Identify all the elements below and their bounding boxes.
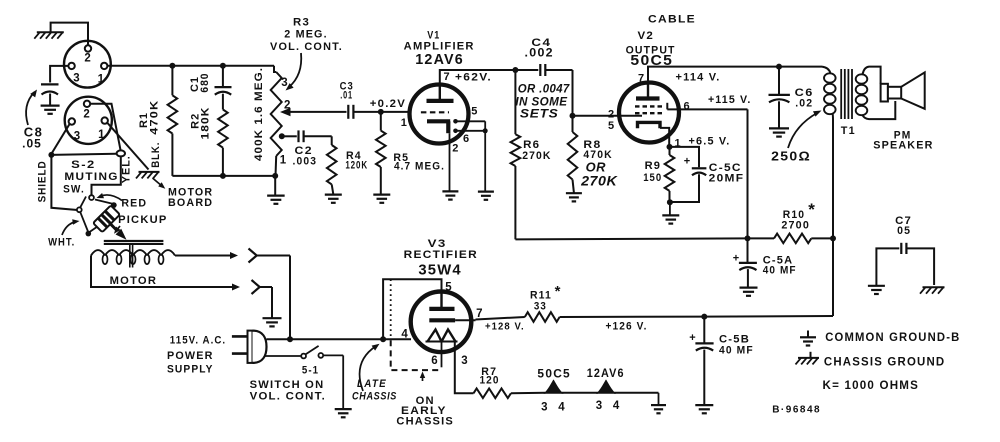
node V3 pin5 tap <box>380 336 386 342</box>
wire V1 plate to C4 <box>440 70 539 85</box>
node C-5B top <box>701 314 707 320</box>
svg-text:PICKUP: PICKUP <box>118 214 167 226</box>
wire V3 pin5 <box>383 279 441 339</box>
svg-text:40 MF: 40 MF <box>763 264 797 276</box>
svg-text:2700: 2700 <box>781 220 810 232</box>
ground (V1 pin 2) <box>442 190 458 192</box>
node R10 right <box>830 235 836 241</box>
connector J2 (pickup socket, pins 1-2-3) <box>65 97 112 144</box>
svg-text:12AV6: 12AV6 <box>587 368 625 380</box>
svg-text:S-2: S-2 <box>71 159 95 171</box>
ground (C-5A) <box>740 287 758 289</box>
capacitor C1 680 <box>222 66 224 87</box>
svg-text:SPEAKER: SPEAKER <box>873 140 933 152</box>
resistor R8 470K <box>572 116 574 132</box>
legend common ground symbol <box>807 331 809 338</box>
svg-text:2: 2 <box>608 108 614 120</box>
potentiometer R3 (400K 1.6 MEG) <box>274 66 276 72</box>
svg-text:40 MF: 40 MF <box>719 344 754 356</box>
chassis ground motor board <box>139 171 160 173</box>
svg-text:+0.2V: +0.2V <box>370 98 406 110</box>
svg-text:400K 1.6 MEG.: 400K 1.6 MEG. <box>253 67 265 161</box>
svg-text:3: 3 <box>541 402 547 414</box>
pot tap node <box>279 133 285 139</box>
node C6 top <box>776 64 782 70</box>
svg-text:1: 1 <box>280 155 287 167</box>
svg-text:3: 3 <box>461 355 467 367</box>
wire S-1 to ground <box>323 354 343 356</box>
stylus arrow <box>110 223 117 230</box>
resistor R6 270K <box>514 70 516 134</box>
svg-text:MUTING: MUTING <box>64 171 118 183</box>
pickup cartridge <box>93 205 120 232</box>
legend chassis ground symbol <box>810 352 812 358</box>
svg-text:SETS: SETS <box>520 106 559 120</box>
svg-text:WHT.: WHT. <box>48 236 75 248</box>
capacitor C4 .002 <box>539 64 541 76</box>
svg-text:K= 1000 OHMS: K= 1000 OHMS <box>823 380 920 392</box>
svg-text:T1: T1 <box>841 125 856 137</box>
switch S-2 blade <box>80 197 86 208</box>
svg-text:SUPPLY: SUPPLY <box>167 364 214 376</box>
resistor R7 120 <box>474 389 511 399</box>
svg-text:270K: 270K <box>522 150 551 162</box>
V2 cathode to pin 1 <box>660 128 669 147</box>
svg-text:CABLE: CABLE <box>648 14 696 26</box>
wire V2 pin6 +115V <box>667 108 747 110</box>
capacitor C6 .02 <box>778 67 780 95</box>
node V2 cathode junction <box>667 144 673 150</box>
svg-text:CHASSIS GROUND: CHASSIS GROUND <box>824 357 946 369</box>
svg-text:SWITCH ON: SWITCH ON <box>250 379 325 391</box>
svg-text:+: + <box>733 253 739 265</box>
V2 screen grids (dashes) <box>635 105 665 107</box>
capacitor C3 .01 <box>347 105 349 119</box>
svg-text:3: 3 <box>74 131 80 143</box>
node WHT (dot) <box>86 231 92 237</box>
wire V2 plate +114V <box>648 67 822 83</box>
wire J1 pin1 to top bus <box>107 65 274 67</box>
svg-text:4: 4 <box>613 400 620 412</box>
ground (C-5B) <box>695 404 713 406</box>
ground (motor line 2) <box>263 317 282 319</box>
svg-text:BOARD: BOARD <box>168 197 213 209</box>
svg-text:3: 3 <box>596 400 602 412</box>
svg-text:5-1: 5-1 <box>302 364 319 376</box>
V3 pin7 wire <box>455 319 475 321</box>
transformer T1 primary <box>822 67 831 74</box>
wire +126 to T1 <box>704 315 833 318</box>
svg-text:.002: .002 <box>525 48 554 60</box>
svg-text:+128 V.: +128 V. <box>485 321 525 333</box>
capacitor C-5A 40MF <box>747 238 749 262</box>
ground (R5) <box>373 194 390 196</box>
wire J2 pin2 to YEL terminal <box>90 104 121 151</box>
wire to V1 grid <box>381 111 410 113</box>
svg-text:1: 1 <box>98 129 105 141</box>
svg-text:470K: 470K <box>583 149 612 161</box>
heater 50C5 (hump) <box>545 381 561 393</box>
svg-text:V2: V2 <box>638 30 655 42</box>
svg-text:12AV6: 12AV6 <box>415 52 464 68</box>
svg-text:COMMON GROUND-B: COMMON GROUND-B <box>825 332 960 344</box>
svg-text:270K: 270K <box>580 173 618 188</box>
svg-text:.003: .003 <box>293 155 318 167</box>
svg-text:+62V.: +62V. <box>455 72 492 84</box>
wire RED contact lead <box>95 200 113 204</box>
V3 pin3 wire <box>455 342 474 394</box>
switch S-1 <box>301 354 306 359</box>
svg-text:RED: RED <box>121 198 147 210</box>
V3 cathode bar <box>429 318 455 322</box>
ground (C7 left, common) <box>868 285 885 287</box>
pot wiper arrow <box>280 108 291 116</box>
ground (R8) <box>566 192 582 194</box>
ground (R4) <box>325 194 342 196</box>
svg-text:POWER: POWER <box>167 350 214 362</box>
V2 screen tap <box>666 103 668 110</box>
ground (C7 right, chassis) <box>923 286 945 288</box>
power plug <box>232 335 249 338</box>
svg-text:+115 V.: +115 V. <box>708 94 752 106</box>
svg-text:R3: R3 <box>293 17 310 29</box>
capacitor C8 .05 <box>41 83 59 85</box>
svg-text:SHIELD: SHIELD <box>37 160 49 202</box>
svg-text:BLK.: BLK. <box>150 142 162 168</box>
svg-text:+: + <box>684 156 690 168</box>
V3 plate <box>440 292 442 307</box>
svg-text:B·96848: B·96848 <box>772 405 821 416</box>
ground (heater) <box>651 404 666 406</box>
switch S-2 lower contact (open circle) <box>77 207 82 212</box>
svg-text:2: 2 <box>84 53 90 65</box>
motor lower wire <box>91 256 233 288</box>
wire shield down <box>51 155 77 210</box>
wire YEL drop to muting contact <box>92 156 121 195</box>
terminal YEL (oval) <box>117 150 125 156</box>
capacitor C7 <box>876 248 899 285</box>
svg-text:120: 120 <box>479 375 499 387</box>
V1 cathode <box>427 119 450 123</box>
svg-text:2 MEG.: 2 MEG. <box>284 28 328 40</box>
svg-text:33: 33 <box>534 300 547 312</box>
svg-text:6: 6 <box>683 101 689 113</box>
svg-text:3: 3 <box>73 73 79 85</box>
svg-text:R6: R6 <box>523 139 540 151</box>
svg-text:CHASSIS: CHASSIS <box>396 415 454 427</box>
svg-text:AMPLIFIER: AMPLIFIER <box>404 41 475 53</box>
svg-text:VOL. CONT.: VOL. CONT. <box>270 41 343 53</box>
node top bus R1 <box>169 63 175 69</box>
svg-text:+6.5 V.: +6.5 V. <box>689 135 731 147</box>
resistor R2 180K <box>218 110 228 148</box>
node +115/R10 junction <box>745 235 751 241</box>
svg-text:180K: 180K <box>200 107 212 140</box>
dotted line (late chassis) <box>390 279 392 339</box>
svg-text:3: 3 <box>281 77 287 89</box>
node R9/C5C bottom <box>667 199 673 205</box>
ground (pot) <box>274 176 276 196</box>
V3 heater <box>428 330 456 342</box>
svg-text:5: 5 <box>471 106 477 118</box>
wire J2 pin3 to shield node <box>52 123 70 153</box>
label MOTOR BOARD <box>153 178 163 187</box>
tube V1 envelope <box>410 85 469 144</box>
svg-text:5: 5 <box>608 120 614 132</box>
node pot bottom <box>272 173 278 179</box>
muting switch contact (open circle) <box>89 195 94 200</box>
capacitor C2 .003 <box>282 135 297 137</box>
svg-text:6: 6 <box>431 355 437 367</box>
wire plug to S-1 <box>264 355 301 357</box>
dashed box (early chassis) <box>391 340 442 370</box>
svg-text:1: 1 <box>401 117 407 129</box>
svg-text:*: * <box>555 283 561 300</box>
svg-text:7: 7 <box>638 72 644 84</box>
svg-text:680: 680 <box>199 73 211 93</box>
node shield junction <box>48 152 54 158</box>
wire contact to WHT lead <box>80 212 88 231</box>
svg-text:+126 V.: +126 V. <box>606 321 648 333</box>
capacitor C-5B 40MF <box>703 317 705 343</box>
PM speaker <box>881 84 888 102</box>
node motor tap <box>287 336 293 342</box>
V2 cathode <box>638 122 661 128</box>
svg-text:SW.: SW. <box>63 184 85 196</box>
svg-text:120K: 120K <box>345 160 368 172</box>
wire heater to ground <box>658 393 660 405</box>
V1 pins 5,6 wires <box>453 119 458 124</box>
svg-text:1: 1 <box>98 74 105 86</box>
svg-text:50C5: 50C5 <box>537 369 571 381</box>
svg-text:OR .0047: OR .0047 <box>518 83 570 95</box>
svg-text:4: 4 <box>401 329 408 341</box>
svg-text:05: 05 <box>897 225 911 237</box>
bus R6 bottom to R10 <box>515 238 747 239</box>
svg-text:+: + <box>689 332 695 344</box>
connector J1 (socket, pins 1-2-3) <box>64 41 111 88</box>
svg-text:YEL.: YEL. <box>121 155 133 183</box>
node bottom bus C1 <box>220 173 226 179</box>
wire WHT to cartridge <box>90 227 98 233</box>
svg-text:6: 6 <box>463 133 469 145</box>
svg-text:2: 2 <box>452 143 458 155</box>
V2 plate <box>647 83 649 97</box>
svg-text:150: 150 <box>643 172 662 184</box>
resistor R5 4.7 MEG <box>380 112 382 131</box>
node grid V1 <box>378 109 384 115</box>
node V2 grid junction <box>570 113 576 119</box>
resistor R11 33 <box>476 317 525 320</box>
node R6 top <box>512 67 518 73</box>
svg-text:250Ω: 250Ω <box>771 150 811 164</box>
svg-text:2: 2 <box>83 108 89 120</box>
wire shield bus to YEL <box>51 154 116 155</box>
transformer T1 secondary <box>856 74 868 83</box>
tube V2 envelope <box>619 83 679 143</box>
svg-text:.05: .05 <box>22 137 42 151</box>
node top bus C1 <box>220 63 226 69</box>
svg-text:7: 7 <box>443 71 449 83</box>
resistor R1 470K <box>171 66 173 96</box>
heater 12AV6 (hump) <box>598 381 614 393</box>
wire C4 to V2 grid <box>572 70 574 116</box>
svg-text:R9: R9 <box>645 160 662 172</box>
V1 plate <box>439 85 441 100</box>
wire J2 pin1 to motor board <box>107 122 149 169</box>
svg-text:VOL. CONT.: VOL. CONT. <box>250 391 326 403</box>
resistor R10 2700 <box>748 237 775 239</box>
svg-text:470K: 470K <box>149 100 161 135</box>
wire J1 pin3 to C8 <box>50 66 68 83</box>
svg-text:4.7 MEG.: 4.7 MEG. <box>394 160 445 172</box>
svg-text:.02: .02 <box>795 98 813 110</box>
svg-text:.01: .01 <box>340 90 353 102</box>
svg-text:20MF: 20MF <box>709 173 745 185</box>
ground (C6) <box>769 127 789 129</box>
svg-text:+114 V.: +114 V. <box>676 72 721 84</box>
capacitor C-5C 20MF <box>670 147 700 167</box>
V1 grid (dashed) <box>421 111 449 113</box>
svg-text:115V. A.C.: 115V. A.C. <box>170 335 226 347</box>
V1 pin 2 wire <box>449 133 451 191</box>
tube V3 envelope <box>411 292 472 353</box>
svg-text:4: 4 <box>558 402 565 414</box>
motor coil <box>91 250 105 255</box>
node RED (dot) <box>111 202 117 208</box>
V3 pin6 wire <box>441 342 443 368</box>
svg-text:35W4: 35W4 <box>418 261 461 278</box>
motor connector 2 (arrows) <box>232 284 240 291</box>
turntable platter <box>104 240 164 242</box>
resistor R9 150 <box>669 147 671 155</box>
svg-text:*: * <box>808 200 815 219</box>
motor connector 1 (arrows) <box>230 252 238 259</box>
svg-text:MOTOR: MOTOR <box>110 275 158 287</box>
transformer T1 core <box>840 69 842 119</box>
ground (R9) <box>669 202 671 215</box>
AC main wire <box>267 338 412 340</box>
chassis ground (top left) <box>51 23 88 46</box>
bottom bus (R1 to pot) <box>172 175 275 177</box>
svg-text:5: 5 <box>445 282 452 294</box>
ground (S-1) <box>335 408 352 410</box>
svg-text:CHASSIS: CHASSIS <box>352 390 397 402</box>
resistor R4 120K <box>331 136 333 145</box>
svg-text:RECTIFIER: RECTIFIER <box>404 249 478 261</box>
ground (V1 pins 5,6) <box>478 191 494 193</box>
